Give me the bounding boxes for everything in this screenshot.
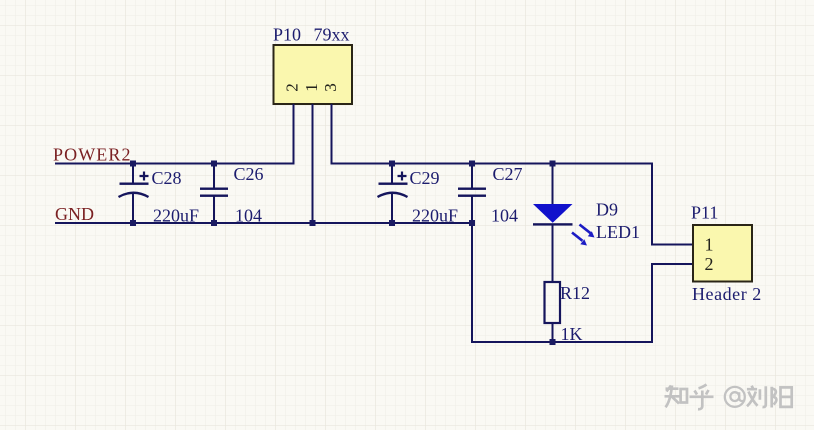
- junction at R12 bottom: [550, 339, 556, 345]
- svg-text:1: 1: [705, 234, 714, 254]
- svg-text:C28: C28: [152, 168, 182, 188]
- capacitor C28: [119, 164, 149, 223]
- svg-text:3: 3: [321, 83, 340, 92]
- wire pin 2 of P10: [293, 104, 295, 165]
- svg-text:1K: 1K: [561, 324, 583, 344]
- wire pin 3 of P10: [331, 104, 333, 165]
- svg-text:79xx: 79xx: [314, 25, 350, 45]
- junction at C28 top: [130, 161, 136, 167]
- svg-text:GND: GND: [55, 204, 94, 224]
- watermark 知乎 @刘阳: [665, 385, 714, 410]
- svg-text:Header 2: Header 2: [692, 284, 762, 304]
- junction at C29 top: [389, 161, 395, 167]
- resistor R12: [545, 282, 561, 342]
- svg-text:POWER2: POWER2: [53, 145, 132, 165]
- svg-text:C29: C29: [410, 168, 440, 188]
- svg-text:P11: P11: [691, 203, 718, 223]
- wire right drop from top rail: [651, 163, 653, 245]
- svg-text:1: 1: [302, 83, 321, 92]
- svg-text:LED1: LED1: [596, 222, 640, 242]
- junction at C26 top: [211, 161, 217, 167]
- junction at C28 bottom: [130, 220, 136, 226]
- svg-text:D9: D9: [596, 200, 618, 220]
- junction at P10 pin1 GND: [310, 220, 316, 226]
- svg-text:R12: R12: [560, 283, 590, 303]
- svg-text:2: 2: [705, 254, 714, 274]
- wire top rail right: [331, 163, 654, 165]
- junction at C27 top: [469, 161, 475, 167]
- svg-text:C27: C27: [493, 164, 523, 184]
- wire P11 pin 1: [651, 244, 693, 246]
- svg-text:104: 104: [235, 206, 262, 226]
- junction at C29 bottom: [389, 220, 395, 226]
- svg-text:220uF: 220uF: [412, 206, 458, 226]
- capacitor C29: [378, 164, 408, 223]
- svg-text:2: 2: [283, 83, 302, 92]
- LED D9: [533, 164, 595, 283]
- svg-text:P10: P10: [273, 25, 301, 45]
- svg-text:104: 104: [491, 206, 518, 226]
- capacitor C27: [458, 164, 486, 223]
- svg-text:220uF: 220uF: [153, 206, 199, 226]
- wire P11 pin 2: [651, 263, 693, 265]
- wire pin 1 of P10: [312, 104, 314, 224]
- wire POWER2 rail: [55, 163, 294, 165]
- wire bottom rail: [471, 341, 653, 343]
- connector P10: [274, 45, 353, 104]
- junction at C27 bottom: [469, 220, 475, 226]
- wire right riser to P11 pin 2: [651, 263, 653, 343]
- wire C27 to bottom rail: [471, 223, 473, 342]
- connector P11: [693, 225, 752, 282]
- wire GND rail: [55, 222, 472, 224]
- capacitor C26: [200, 164, 228, 223]
- svg-text:C26: C26: [234, 164, 264, 184]
- junction at C26 bottom: [211, 220, 217, 226]
- junction at LED top: [550, 161, 556, 167]
